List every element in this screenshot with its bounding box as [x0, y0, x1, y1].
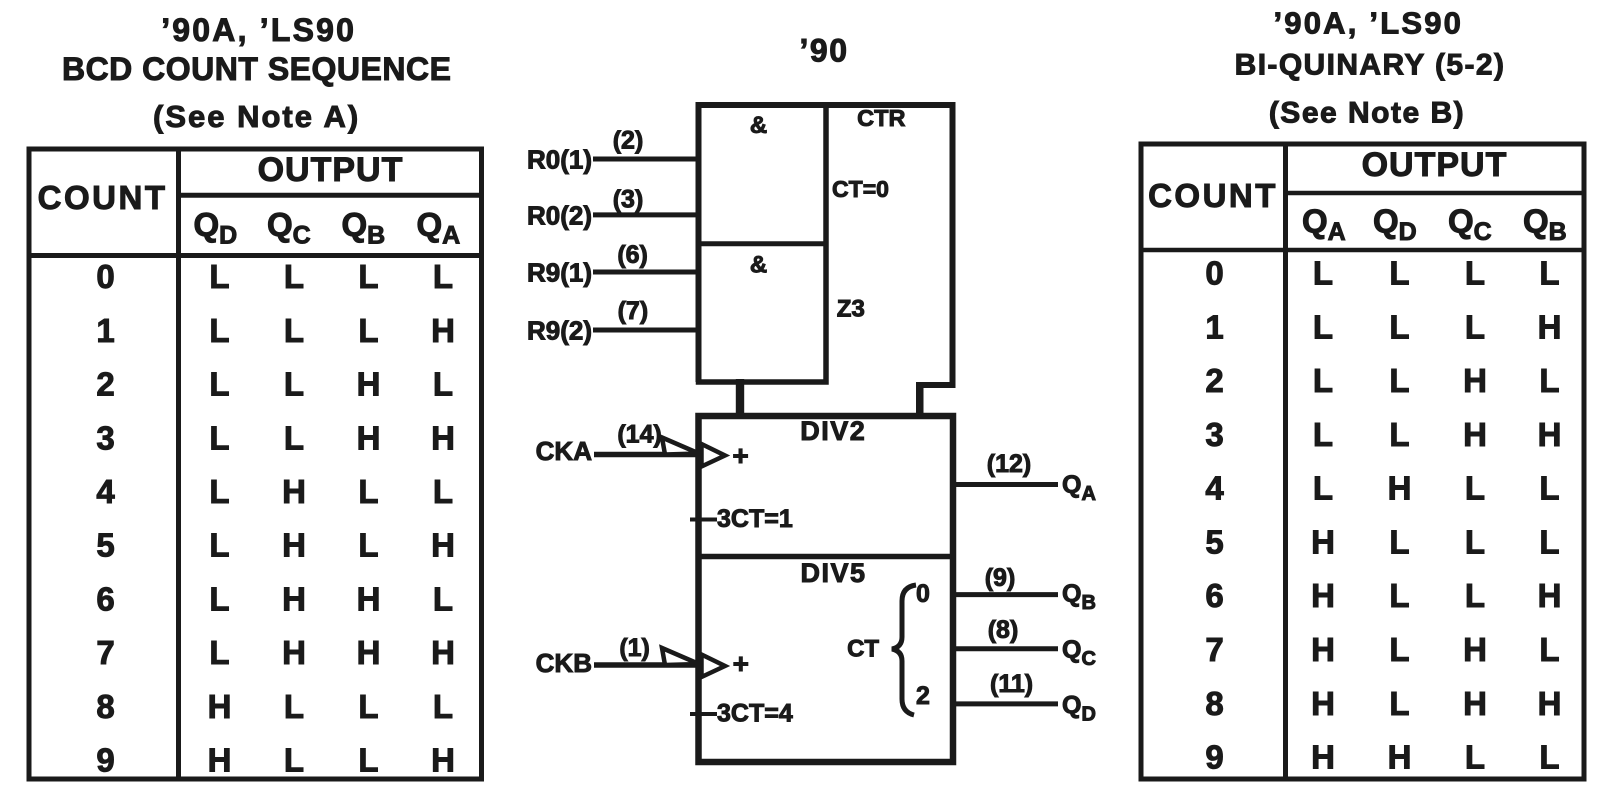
svg-text:QA: QA — [1302, 203, 1346, 247]
left table OUTPUT underline — [179, 193, 482, 198]
input R0(2) label — [527, 201, 592, 231]
svg-text:(2): (2) — [613, 126, 644, 154]
svg-text:7: 7 — [96, 634, 114, 671]
svg-text:&: & — [750, 112, 767, 139]
svg-text:R9(2): R9(2) — [527, 316, 592, 346]
svg-text:H: H — [1311, 739, 1335, 776]
svg-text:QC: QC — [1448, 203, 1492, 247]
pin (12) label (QA) — [987, 450, 1031, 478]
svg-text:L: L — [358, 473, 378, 510]
svg-text:L: L — [1313, 470, 1333, 507]
label 3CT=1 — [717, 505, 793, 533]
svg-text:8: 8 — [1205, 685, 1223, 722]
input R9(2) label — [527, 316, 592, 346]
wire output QB — [952, 592, 1058, 597]
svg-text:L: L — [284, 688, 304, 725]
svg-text:L: L — [209, 634, 229, 671]
svg-text:BCD COUNT SEQUENCE: BCD COUNT SEQUENCE — [62, 51, 451, 87]
right table title line 1 — [1273, 6, 1463, 41]
svg-text:L: L — [1313, 255, 1333, 292]
arrowhead CKB — [662, 648, 699, 665]
svg-text:L: L — [209, 258, 229, 295]
svg-text:L: L — [209, 580, 229, 617]
svg-text:L: L — [209, 527, 229, 564]
svg-text:DIV2: DIV2 — [800, 416, 866, 446]
svg-text:H: H — [1311, 631, 1335, 668]
left table COUNT header — [38, 179, 168, 216]
label CT — [847, 636, 879, 663]
right table data rows — [1205, 255, 1561, 776]
svg-text:L: L — [284, 312, 304, 349]
svg-text:QA: QA — [1062, 471, 1096, 505]
label 3CT=4 — [717, 700, 793, 728]
svg-text:Z3: Z3 — [837, 296, 865, 323]
svg-text:L: L — [433, 473, 453, 510]
AND gates box (reset section) — [699, 105, 827, 382]
svg-text:H: H — [1311, 524, 1335, 561]
svg-text:COUNT: COUNT — [1148, 177, 1278, 214]
svg-text:QD: QD — [1062, 692, 1096, 726]
neck left (AND output into DIV2) — [736, 379, 744, 419]
svg-text:8: 8 — [96, 688, 114, 725]
svg-text:7: 7 — [1205, 631, 1223, 668]
right table OUTPUT underline — [1286, 191, 1585, 196]
svg-text:(See Note A): (See Note A) — [153, 99, 360, 134]
svg-text:(12): (12) — [987, 450, 1031, 478]
svg-text:QC: QC — [1062, 636, 1096, 670]
svg-text:H: H — [1463, 631, 1487, 668]
svg-text:3CT=1: 3CT=1 — [717, 505, 793, 533]
svg-text:L: L — [1389, 524, 1409, 561]
pin (14) label (CKA) — [617, 420, 661, 448]
svg-text:L: L — [209, 419, 229, 456]
svg-text:QB: QB — [1062, 580, 1096, 614]
svg-text:L: L — [1313, 416, 1333, 453]
svg-text:H: H — [1463, 685, 1487, 722]
svg-text:L: L — [1389, 416, 1409, 453]
svg-text:R0(1): R0(1) — [527, 145, 592, 175]
svg-text:H: H — [431, 419, 455, 456]
svg-text:H: H — [1311, 577, 1335, 614]
left table title line 1 — [161, 12, 356, 48]
svg-text:L: L — [358, 312, 378, 349]
DIV2/DIV5 divider — [699, 554, 954, 560]
svg-text:OUTPUT: OUTPUT — [258, 151, 404, 189]
tick 3CT=4 — [690, 712, 717, 716]
svg-text:&: & — [750, 252, 767, 279]
wire output QC — [952, 646, 1058, 651]
svg-text:L: L — [1389, 308, 1409, 345]
svg-text:L: L — [1539, 631, 1559, 668]
svg-text:1: 1 — [96, 312, 114, 349]
pin (7) label (R9(2)) — [618, 297, 649, 325]
svg-text:L: L — [1539, 470, 1559, 507]
right table COUNT header — [1148, 177, 1278, 214]
svg-text:R0(2): R0(2) — [527, 201, 592, 231]
label 0 (CT weight 0) — [916, 580, 930, 608]
svg-text:CT=0: CT=0 — [832, 176, 889, 202]
svg-text:(3): (3) — [613, 186, 644, 214]
left table note — [153, 99, 360, 134]
label & (R0 AND gate) — [750, 112, 767, 139]
svg-text:’90A, ’LS90: ’90A, ’LS90 — [1273, 6, 1463, 41]
svg-text:(14): (14) — [617, 420, 661, 448]
svg-text:QD: QD — [194, 206, 238, 250]
left table Q column headers — [194, 206, 461, 250]
svg-text:H: H — [1538, 685, 1562, 722]
svg-text:0: 0 — [916, 580, 930, 608]
wire CKA — [594, 452, 700, 458]
svg-text:L: L — [433, 580, 453, 617]
pin (6) label (R9(1)) — [617, 241, 648, 269]
label 2 (CT weight 2) — [916, 682, 930, 710]
svg-text:L: L — [1539, 739, 1559, 776]
wire R9(2) — [593, 328, 700, 333]
svg-text:H: H — [1388, 470, 1412, 507]
svg-text:H: H — [357, 580, 381, 617]
right table header bottom line — [1141, 248, 1583, 253]
input R0(1) label — [527, 145, 592, 175]
svg-text:9: 9 — [1205, 739, 1223, 776]
right table column separator — [1283, 144, 1288, 779]
svg-text:H: H — [282, 527, 306, 564]
left table title line 2 — [62, 51, 451, 87]
svg-text:L: L — [358, 527, 378, 564]
wire CKB — [594, 662, 700, 668]
svg-text:(1): (1) — [619, 634, 650, 662]
dynamic input wedge CKB — [702, 655, 726, 678]
svg-text:4: 4 — [96, 473, 115, 510]
svg-text:L: L — [358, 688, 378, 725]
right table frame — [1141, 144, 1584, 779]
svg-text:(11): (11) — [990, 670, 1033, 698]
diagram title '90 — [800, 33, 849, 69]
output label QB — [1062, 580, 1096, 614]
svg-text:H: H — [1538, 416, 1562, 453]
svg-text:H: H — [357, 366, 381, 403]
svg-text:L: L — [1313, 362, 1333, 399]
svg-text:0: 0 — [96, 258, 114, 295]
tick 3CT=1 — [690, 518, 717, 522]
svg-text:QA: QA — [417, 206, 461, 250]
output label QC — [1062, 636, 1096, 670]
DIV2/DIV5 block outline — [699, 416, 954, 762]
svg-text:+: + — [733, 648, 749, 679]
svg-text:CKA: CKA — [536, 436, 593, 466]
output label QD — [1062, 692, 1096, 726]
svg-text:H: H — [357, 634, 381, 671]
pin (1) label (CKB) — [619, 634, 650, 662]
svg-text:L: L — [433, 258, 453, 295]
svg-text:R9(1): R9(1) — [527, 258, 592, 288]
pin (8) label (QC) — [988, 616, 1019, 644]
svg-text:L: L — [284, 742, 304, 779]
label + (DIV2 count up) — [732, 440, 748, 471]
svg-text:QC: QC — [267, 206, 311, 250]
left table data rows — [96, 258, 455, 778]
svg-text:L: L — [358, 742, 378, 779]
svg-text:L: L — [284, 419, 304, 456]
left table frame — [29, 149, 482, 779]
svg-text:H: H — [431, 742, 455, 779]
right table OUTPUT header — [1362, 146, 1508, 184]
label & (R9 AND gate) — [750, 252, 767, 279]
arrowhead CKA — [662, 438, 699, 455]
input CKB label — [536, 648, 592, 678]
svg-text:L: L — [1539, 255, 1559, 292]
left table column separator — [176, 149, 181, 779]
svg-text:H: H — [1388, 739, 1412, 776]
svg-text:DIV5: DIV5 — [800, 558, 866, 588]
output label QA — [1062, 471, 1096, 505]
svg-text:’90: ’90 — [800, 33, 849, 69]
svg-text:H: H — [1463, 416, 1487, 453]
svg-text:L: L — [1389, 362, 1409, 399]
svg-text:L: L — [1465, 739, 1485, 776]
svg-text:5: 5 — [96, 527, 114, 564]
svg-text:CT: CT — [847, 636, 879, 663]
wire output QA — [952, 482, 1058, 487]
svg-text:L: L — [433, 688, 453, 725]
svg-text:H: H — [208, 742, 232, 779]
svg-text:QB: QB — [342, 206, 386, 250]
neck right (CTR into DIV2) — [916, 382, 924, 419]
svg-text:6: 6 — [96, 580, 114, 617]
right table Q column headers — [1302, 203, 1567, 247]
svg-text:L: L — [1465, 470, 1485, 507]
wire R9(1) — [593, 270, 700, 275]
svg-text:H: H — [282, 580, 306, 617]
svg-text:BI-QUINARY (5-2): BI-QUINARY (5-2) — [1235, 49, 1506, 82]
svg-text:H: H — [208, 688, 232, 725]
svg-text:L: L — [1465, 524, 1485, 561]
svg-text:L: L — [1465, 577, 1485, 614]
svg-text:L: L — [1465, 255, 1485, 292]
svg-text:L: L — [433, 366, 453, 403]
svg-text:3: 3 — [1205, 416, 1223, 453]
svg-text:L: L — [209, 366, 229, 403]
svg-text:+: + — [732, 440, 748, 471]
svg-text:L: L — [1313, 308, 1333, 345]
svg-text:H: H — [1538, 308, 1562, 345]
svg-text:L: L — [1539, 362, 1559, 399]
svg-text:H: H — [357, 419, 381, 456]
AND section divider — [699, 241, 827, 246]
svg-text:(8): (8) — [988, 616, 1019, 644]
label DIV5 — [800, 558, 866, 588]
svg-text:2: 2 — [916, 682, 930, 710]
svg-text:H: H — [282, 634, 306, 671]
svg-text:CKB: CKB — [536, 648, 592, 678]
svg-text:1: 1 — [1205, 308, 1223, 345]
svg-text:H: H — [1311, 685, 1335, 722]
svg-text:L: L — [1465, 308, 1485, 345]
wire R0(2) — [593, 212, 700, 217]
svg-text:H: H — [431, 634, 455, 671]
svg-text:2: 2 — [1205, 362, 1223, 399]
svg-text:QD: QD — [1373, 203, 1417, 247]
svg-text:H: H — [431, 312, 455, 349]
pin (3) label (R0(2)) — [613, 186, 644, 214]
svg-text:’90A, ’LS90: ’90A, ’LS90 — [161, 12, 356, 48]
svg-text:OUTPUT: OUTPUT — [1362, 146, 1508, 184]
svg-text:0: 0 — [1205, 255, 1223, 292]
svg-text:(9): (9) — [985, 564, 1016, 592]
pin (2) label (R0(1)) — [613, 126, 644, 154]
svg-text:3CT=4: 3CT=4 — [717, 700, 793, 728]
svg-text:L: L — [209, 473, 229, 510]
input CKA label — [536, 436, 593, 466]
pin (11) label (QD) — [990, 670, 1033, 698]
left table OUTPUT header — [258, 151, 404, 189]
svg-text:L: L — [284, 258, 304, 295]
input R9(1) label — [527, 258, 592, 288]
svg-text:6: 6 — [1205, 577, 1223, 614]
pin (9) label (QB) — [985, 564, 1016, 592]
svg-text:(7): (7) — [618, 297, 649, 325]
svg-text:L: L — [209, 312, 229, 349]
svg-text:(6): (6) — [617, 241, 648, 269]
svg-text:(See Note B): (See Note B) — [1269, 97, 1465, 130]
svg-text:CTR: CTR — [857, 105, 905, 131]
label DIV2 — [800, 416, 866, 446]
svg-text:L: L — [1389, 255, 1409, 292]
label CTR — [857, 105, 905, 131]
svg-text:L: L — [1539, 524, 1559, 561]
label CT=0 — [832, 176, 889, 202]
svg-text:L: L — [1389, 685, 1409, 722]
svg-text:COUNT: COUNT — [38, 179, 168, 216]
svg-text:3: 3 — [96, 419, 114, 456]
svg-text:H: H — [1463, 362, 1487, 399]
svg-text:H: H — [282, 473, 306, 510]
right table title line 2 — [1235, 49, 1506, 82]
svg-text:QB: QB — [1523, 203, 1567, 247]
wire R0(1) — [593, 157, 700, 162]
svg-text:9: 9 — [96, 742, 114, 779]
right table note — [1269, 97, 1465, 130]
CT brace — [892, 585, 916, 715]
svg-text:L: L — [358, 258, 378, 295]
dynamic input wedge CKA — [702, 444, 726, 467]
svg-text:L: L — [1389, 577, 1409, 614]
label + (DIV5 count up) — [733, 648, 749, 679]
svg-text:L: L — [1389, 631, 1409, 668]
svg-text:H: H — [1538, 577, 1562, 614]
label Z3 — [837, 296, 865, 323]
svg-text:L: L — [284, 366, 304, 403]
svg-text:4: 4 — [1205, 470, 1224, 507]
counter CTR block outline — [699, 105, 953, 385]
left table header bottom line — [29, 253, 482, 258]
svg-text:H: H — [431, 527, 455, 564]
wire output QD — [952, 701, 1058, 706]
svg-text:2: 2 — [96, 366, 114, 403]
svg-text:5: 5 — [1205, 524, 1223, 561]
